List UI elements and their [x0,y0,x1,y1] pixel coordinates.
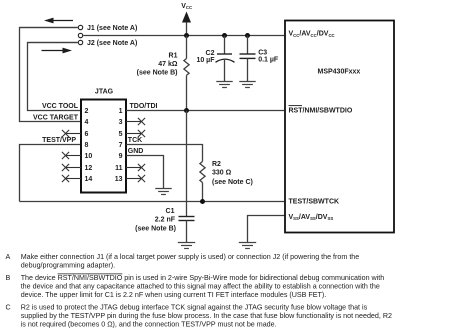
junction node: Vcc/C3 [245,33,250,38]
wire Vcc rail [83,35,285,37]
capacitor C2 10 uF [196,36,234,82]
wire TCK net [126,137,203,161]
svg-text:C3: C3 [258,49,267,56]
svg-text:supplied by the TEST/VPP pin d: supplied by the TEST/VPP pin during the … [21,312,392,320]
pin 6 no-connect stub [62,130,81,137]
svg-text:MSP430Fxxx: MSP430Fxxx [318,69,361,76]
wire GND net [126,148,164,188]
power symbol Vcc [181,3,192,36]
pin RST/NMI/SBWTDIO [289,106,353,115]
connector J1 [20,25,138,32]
junction node: Vcc/R1 [184,33,189,38]
svg-text:VCC TARGET: VCC TARGET [33,114,79,121]
svg-text:(see Note B): (see Note B) [135,225,176,232]
svg-text:JTAG: JTAG [95,88,114,95]
svg-text:J2 (see Note A): J2 (see Note A) [87,40,137,47]
arrow (current flow to J1) [44,18,73,24]
svg-text:RST/NMI/SBWTDIO: RST/NMI/SBWTDIO [289,108,353,115]
svg-text:6: 6 [85,131,89,138]
svg-text:C1: C1 [166,208,175,215]
ground (Vss) [239,243,256,249]
svg-text:3: 3 [119,119,123,126]
ground (C3) [239,82,255,88]
svg-text:TEST/VPP: TEST/VPP [42,137,76,144]
svg-text:J1 (see Note A): J1 (see Note A) [87,25,137,32]
svg-text:1: 1 [119,108,123,115]
svg-text:TCK: TCK [128,137,142,144]
pin 5 no-connect stub [126,130,145,137]
svg-text:(see Note B): (see Note B) [137,70,178,77]
svg-text:R2 is used to protect the JTAG: R2 is used to protect the JTAG debug int… [21,304,368,312]
svg-text:0.1 µF: 0.1 µF [258,57,279,64]
svg-text:VCC: VCC [181,3,192,10]
wire Vss net [248,216,286,243]
pin 12 no-connect stub [62,164,81,171]
svg-text:the device and that any capaci: the device and that any capacitance atta… [21,283,380,291]
pin 11 no-connect stub [126,164,145,171]
svg-text:A: A [6,253,11,261]
svg-text:2.2 nF: 2.2 nF [155,216,176,223]
svg-text:R1: R1 [169,52,178,59]
pin 10 no-connect stub [62,152,81,159]
svg-text:12: 12 [85,165,93,172]
ground (C1) [178,243,195,249]
wire SBWTDIO down to C1 [186,111,188,217]
connector J2 [28,40,138,47]
capacitor C1 2.2 nF [135,208,194,243]
svg-text:B: B [6,274,11,282]
IC U1 MSP430Fxxx box [285,21,394,233]
svg-text:is not required (becomes 0 Ω),: is not required (becomes 0 Ω), and the c… [21,321,277,329]
svg-text:2: 2 [85,108,89,115]
svg-text:Make either connection J1 (if: Make either connection J1 (if a local ta… [21,253,360,261]
note C [6,304,392,329]
ground (C2) [216,82,232,88]
pin 14 no-connect stub [62,175,81,182]
svg-text:The device RST/NMI/SBWTDIO pin: The device RST/NMI/SBWTDIO pin is used i… [21,274,385,282]
svg-text:10 µF: 10 µF [196,57,215,64]
note A [6,253,360,270]
wire TDO/TDI to RST/NMI/SBWTDIO [126,103,285,110]
note B [6,274,385,299]
pin numbers right column [115,108,123,183]
svg-text:5: 5 [119,131,123,138]
svg-text:C: C [6,304,11,312]
svg-text:330 Ω: 330 Ω [212,170,232,177]
svg-text:debug/programming adapter).: debug/programming adapter). [21,262,115,270]
junction node: R1/SBWTDIO [184,108,189,113]
svg-text:9: 9 [119,153,123,160]
junction node: R2/TEST [200,199,205,204]
svg-text:10: 10 [85,153,93,160]
svg-text:13: 13 [115,176,123,183]
svg-text:7: 7 [119,142,123,149]
junction node: Vcc/C2 [222,33,227,38]
svg-text:device. The upper limit for C1: device. The upper limit for C1 is 2.2 nF… [21,291,327,299]
resistor R1 47 kOhm [137,36,189,111]
svg-text:R2: R2 [212,161,221,168]
svg-text:14: 14 [85,176,93,183]
svg-text:(see Note C): (see Note C) [212,179,253,186]
node: Vcc rail open terminal [78,33,82,37]
svg-text:C2: C2 [206,50,215,57]
svg-text:VCC TOOL: VCC TOOL [42,103,79,110]
svg-text:TEST/SBWTCK: TEST/SBWTCK [289,198,340,205]
svg-text:GND: GND [128,148,144,155]
pin 13 no-connect stub [126,175,145,182]
arrow (current flow from J2) [42,48,73,54]
ground (GND pin) [155,189,171,195]
svg-text:TDO/TDI: TDO/TDI [130,103,158,110]
capacitor C3 0.1 uF [240,36,279,82]
svg-text:4: 4 [85,119,89,126]
wire VCC TOOL net [28,43,82,111]
resistor R2 330 Ohm [200,161,253,202]
wire VCC TARGET net [20,28,82,122]
pin 3 no-connect stub [126,118,145,125]
wire TEST/VPP net [20,137,82,202]
wire TEST/SBWTCK line [20,201,286,203]
pin numbers left column [85,108,93,183]
svg-text:11: 11 [115,165,123,172]
svg-text:8: 8 [85,142,89,149]
svg-text:47 kΩ: 47 kΩ [158,61,178,68]
connector JTAG box [81,88,126,192]
